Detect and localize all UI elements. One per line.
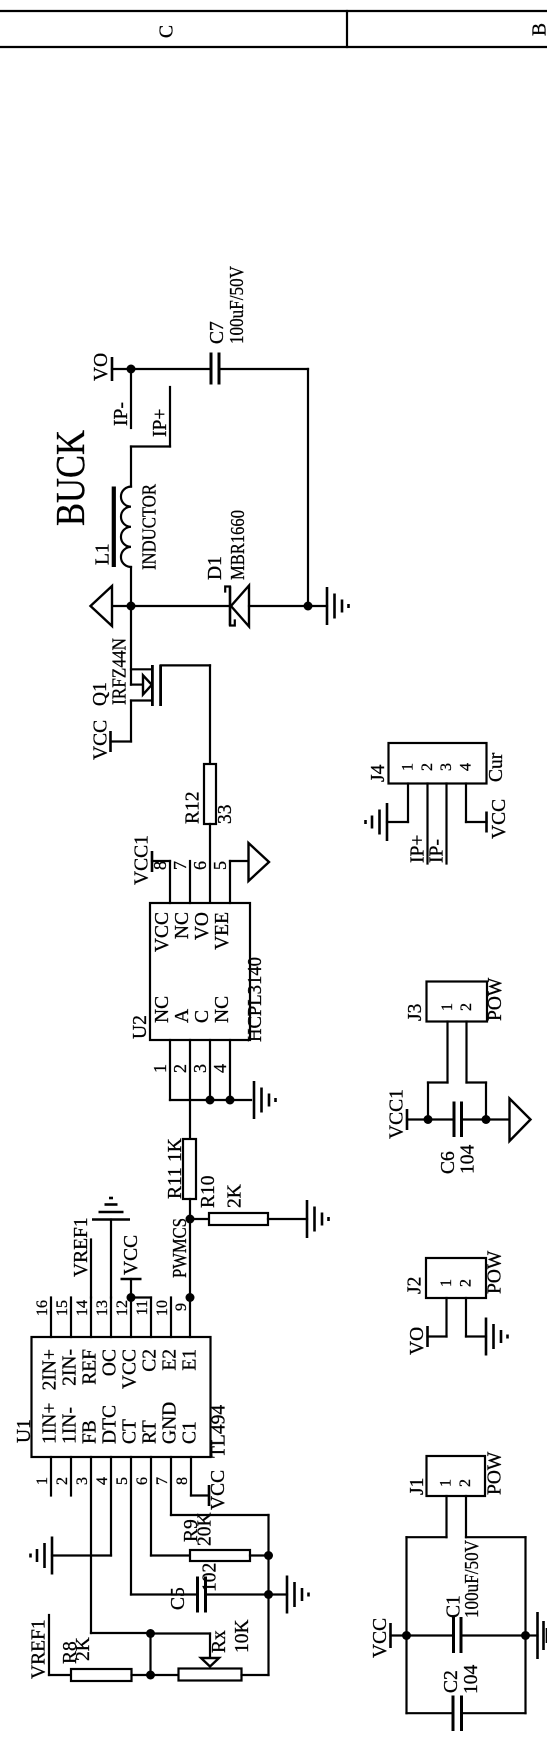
wire: REF to VREF1 <box>90 1240 92 1298</box>
open triangle arrow at J3 <box>510 1099 531 1142</box>
U2 pin 4 line <box>229 1040 231 1100</box>
svg-text:5: 5 <box>210 861 230 870</box>
svg-text:1: 1 <box>34 1477 51 1485</box>
U1 pin name 2IN- <box>60 1349 81 1386</box>
svg-text:4: 4 <box>94 1477 111 1485</box>
label R10 <box>198 1175 219 1208</box>
transistor Q1 gate bar <box>159 665 162 706</box>
svg-text:POW: POW <box>485 977 506 1021</box>
junction dot J3 return <box>482 1115 491 1124</box>
potentiometer Rx wiper arrow <box>201 1658 219 1667</box>
svg-text:2: 2 <box>419 763 436 771</box>
net label VREF1 at divider <box>29 1619 50 1679</box>
wire: C5 to gnd bus <box>207 1593 269 1595</box>
svg-text:NC: NC <box>172 912 193 939</box>
resistor R9 <box>190 1550 250 1561</box>
svg-text:VCC: VCC <box>208 1470 229 1510</box>
svg-text:1K: 1K <box>165 1138 186 1162</box>
junction dot R9/bus <box>264 1551 273 1560</box>
svg-text:J4: J4 <box>368 764 389 782</box>
wire: GND pin corner down to bus <box>171 1514 269 1516</box>
svg-text:C2: C2 <box>140 1349 161 1372</box>
label J3 <box>405 1004 426 1021</box>
J4 pin 4 <box>458 763 475 822</box>
wire: U2 ground tie line <box>170 1099 251 1101</box>
svg-text:3: 3 <box>74 1477 91 1485</box>
capacitor C7 plates <box>211 353 219 385</box>
power label VCC at pin12 <box>121 1235 142 1275</box>
value MBR1660 <box>228 510 249 580</box>
value 2K <box>225 1184 246 1208</box>
U2 pin 1 number <box>150 1064 170 1073</box>
J4 pin 1 <box>400 763 417 822</box>
wire: IP- stub <box>130 369 132 428</box>
wire: DTC corner up to ground <box>52 1554 111 1556</box>
svg-text:104: 104 <box>461 1665 482 1695</box>
U1 pin name 1IN- <box>60 1407 81 1444</box>
U2 pin 7 number <box>170 861 190 870</box>
svg-text:VCC: VCC <box>489 799 510 839</box>
svg-text:100uF/50V: 100uF/50V <box>462 1540 483 1618</box>
U1 pin 2 line <box>54 1457 71 1496</box>
J2 pin 2 <box>458 1279 475 1337</box>
wire: C1 column upper <box>407 1634 453 1636</box>
wire: C2 leg lower <box>463 1712 526 1714</box>
svg-text:GND: GND <box>160 1402 181 1444</box>
svg-text:2: 2 <box>457 1479 474 1487</box>
U1 pin name E1 <box>180 1349 201 1371</box>
frame border mid line <box>0 10 547 12</box>
wire: FB corner down to dot A <box>91 1632 151 1634</box>
J2 pin 1 <box>438 1279 455 1337</box>
U1 pin 6 line RT <box>134 1457 151 1556</box>
value 104 at C2 <box>461 1665 482 1695</box>
frame zone divider tick <box>346 11 348 47</box>
U2 pin 6 number <box>190 861 210 870</box>
ground at J2 <box>486 1318 508 1356</box>
label POW at J3 <box>485 977 506 1021</box>
ground at rail <box>308 587 349 625</box>
VCC flag stub at J1 <box>391 1634 407 1636</box>
wire: IP+ corner down <box>131 445 170 447</box>
value 102 <box>200 1563 221 1592</box>
U2 pin 3 line <box>209 1040 211 1100</box>
net label VCC1 <box>132 835 153 885</box>
node A arrow stub <box>112 605 131 607</box>
node A open triangle arrow <box>91 586 113 626</box>
label R8 <box>60 1641 81 1664</box>
wire: VCC rail <box>405 1537 407 1713</box>
svg-text:VO: VO <box>407 1327 428 1355</box>
U1 pin 3 line FB <box>74 1457 91 1633</box>
svg-text:1: 1 <box>438 1479 455 1487</box>
svg-text:R11: R11 <box>165 1167 186 1199</box>
wire: J1 pin2 corner down to gnd rail <box>466 1536 526 1538</box>
U1 pin name DTC <box>100 1405 121 1444</box>
svg-text:10: 10 <box>154 1300 171 1316</box>
U1 pin 10 line <box>154 1298 171 1338</box>
label Q1 <box>90 682 111 706</box>
ground up at DTC <box>31 1537 53 1575</box>
svg-text:20K: 20K <box>195 1512 216 1546</box>
svg-text:104: 104 <box>458 1145 479 1175</box>
VCC flag bar at pin8 <box>208 1485 211 1506</box>
connector J2 body <box>426 1258 486 1298</box>
svg-text:VCC: VCC <box>120 1349 141 1389</box>
wire: R12 to U2 pin6 <box>209 824 211 903</box>
svg-text:C: C <box>192 1010 213 1023</box>
svg-text:R12: R12 <box>183 791 204 824</box>
svg-text:E2: E2 <box>160 1349 181 1371</box>
wire: PWMCS net <box>189 1219 191 1298</box>
svg-text:2: 2 <box>458 1003 475 1011</box>
transistor Q1 body stub <box>131 683 143 685</box>
svg-text:VO: VO <box>91 353 112 381</box>
junction dot J3 VCC1 <box>424 1115 433 1124</box>
power label VCC at Q1 <box>91 720 112 760</box>
capacitor C6 plates <box>454 1102 462 1138</box>
U2 pin 2 number <box>170 1064 190 1073</box>
wire: R8 to Rx <box>132 1674 179 1676</box>
svg-text:VCC: VCC <box>370 1618 391 1658</box>
wire: Q1 source to switch node <box>130 606 132 685</box>
svg-text:3: 3 <box>438 763 455 771</box>
label POW at J1 <box>485 1451 506 1495</box>
transistor Q1 drain stub <box>131 699 152 701</box>
wire: gnd rail <box>524 1537 526 1713</box>
U2 pin 3 number <box>190 1064 210 1073</box>
label J2 <box>405 1277 426 1294</box>
label POW at J2 <box>485 1250 506 1294</box>
wire: RT net from pin6... dot A riser <box>151 1632 211 1634</box>
wire: CT corner down to C5 <box>131 1593 196 1595</box>
op-amp U1 TL494 body <box>32 1337 211 1457</box>
transistor Q1 body arrow <box>143 675 152 694</box>
svg-text:C5: C5 <box>168 1587 189 1610</box>
frame border inner line <box>0 46 547 48</box>
VCC flag stub at pin12 <box>130 1279 132 1298</box>
svg-text:C7: C7 <box>207 321 228 344</box>
value 10K <box>232 1619 253 1653</box>
svg-text:1: 1 <box>439 1003 456 1011</box>
wire: Rx to gnd bus <box>242 1674 269 1676</box>
label C1 <box>444 1595 465 1618</box>
net label IP- <box>111 402 132 426</box>
U1 pin name C1 <box>180 1421 201 1444</box>
svg-text:2K: 2K <box>73 1637 94 1661</box>
value 100uF/50V <box>227 266 248 344</box>
svg-text:VCC1: VCC1 <box>132 835 153 885</box>
label L1 <box>93 543 114 565</box>
wire: D1 anode to rail <box>249 605 308 607</box>
svg-text:2: 2 <box>458 1279 475 1287</box>
svg-text:VCC1: VCC1 <box>387 1089 408 1139</box>
net label IP+ at J4 <box>408 835 429 863</box>
U1 pin name FB <box>80 1420 101 1444</box>
wire: inductor to IP+ corner <box>130 447 132 487</box>
U2 pin 1 line <box>169 1040 171 1100</box>
svg-text:5: 5 <box>114 1477 131 1485</box>
wire: J1 pin1 corner up to VCC rail <box>407 1536 447 1538</box>
net label IP+ <box>150 409 171 437</box>
svg-text:15: 15 <box>54 1300 71 1316</box>
svg-text:1IN-: 1IN- <box>60 1407 81 1444</box>
label Rx <box>209 1630 230 1653</box>
label J4 <box>368 764 389 782</box>
net label IP- at J4 <box>427 839 448 863</box>
net label VCC1 at J3 <box>387 1089 408 1139</box>
VCC flag bar at J4 <box>485 812 488 833</box>
diode D1 cathode bar with schottky hooks <box>225 587 235 626</box>
U2 pin 4 number <box>210 1064 230 1073</box>
wire: Q1 drain to VCC corner <box>130 701 132 742</box>
net label PWMCS <box>170 1218 191 1278</box>
U2 pin name A <box>172 1009 193 1023</box>
value 2K <box>73 1637 94 1661</box>
wire: switch node down to D1 <box>131 605 230 607</box>
wire: C1 column lower <box>463 1634 526 1636</box>
svg-text:MBR1660: MBR1660 <box>228 510 249 580</box>
wire: IP+ stub <box>169 387 171 447</box>
wire: OC to ground <box>110 1220 112 1298</box>
U2 pin name NC left <box>152 996 173 1023</box>
label J1 <box>407 1478 428 1495</box>
svg-text:J1: J1 <box>407 1478 428 1495</box>
svg-text:IP-: IP- <box>111 402 132 426</box>
power label VCC at J4 <box>489 799 510 839</box>
resistor R12 <box>204 764 216 824</box>
svg-text:OC: OC <box>100 1349 121 1376</box>
svg-text:2K: 2K <box>225 1184 246 1208</box>
svg-text:J3: J3 <box>405 1004 426 1021</box>
wire: J3 pin1 corner <box>428 1083 448 1120</box>
svg-text:PWMCS: PWMCS <box>170 1218 191 1278</box>
U1 pin name VCC <box>120 1349 141 1389</box>
svg-text:9: 9 <box>173 1303 190 1311</box>
ground at U2 <box>254 1081 276 1119</box>
U2 pin 7 line <box>189 861 191 903</box>
junction dot gnd rail <box>521 1631 530 1640</box>
svg-text:NC: NC <box>152 996 173 1023</box>
junction dot B <box>146 1671 155 1680</box>
svg-text:U2: U2 <box>130 1015 151 1039</box>
U1 pin 13 line OC <box>94 1298 111 1338</box>
open triangle arrow at U2 pin5 <box>249 843 270 881</box>
J3 pin 2 <box>458 1003 475 1083</box>
VCC flag stub at Q1 <box>111 740 132 742</box>
svg-text:C2: C2 <box>441 1670 462 1693</box>
wire: J3 pin2 corner <box>467 1083 487 1120</box>
svg-text:100uF/50V: 100uF/50V <box>227 266 248 344</box>
J4 pin 2 IP+ <box>419 763 436 864</box>
resistor R8 <box>71 1669 132 1681</box>
svg-text:L1: L1 <box>93 543 114 565</box>
U2 pin 8 number <box>150 861 170 870</box>
capacitor C2 plates <box>453 1696 462 1732</box>
svg-text:10K: 10K <box>232 1619 253 1653</box>
wire: R10 to ground <box>268 1218 307 1220</box>
transistor Q1 channel bar <box>151 665 154 706</box>
svg-text:POW: POW <box>485 1451 506 1495</box>
ground right at OC <box>92 1198 130 1220</box>
U2 pin name VO <box>192 912 213 940</box>
svg-text:1IN+: 1IN+ <box>40 1403 61 1444</box>
U2 pin name VEE <box>212 912 233 950</box>
value 1K <box>165 1138 186 1162</box>
wire: J2 pin1 corner up <box>428 1335 447 1337</box>
U1 pin 4 line DTC <box>94 1457 111 1556</box>
J4 pin 3 IP- <box>438 763 455 864</box>
junction dot U2 pin4 <box>226 1096 235 1105</box>
svg-text:16: 16 <box>34 1300 51 1316</box>
ground at R10 <box>307 1200 329 1238</box>
J1 pin 1 <box>438 1479 455 1537</box>
VCC flag bar at Q1 <box>109 731 112 752</box>
frame zone letter B <box>530 23 547 36</box>
ground at gnd rail (clipped) <box>526 1612 547 1659</box>
ground up at J4 <box>366 803 388 841</box>
U1 pin name OC <box>100 1349 121 1376</box>
svg-text:VEE: VEE <box>212 912 233 950</box>
svg-text:VREF1: VREF1 <box>29 1619 50 1679</box>
J3 pin 1 <box>439 1003 456 1083</box>
svg-text:2: 2 <box>54 1477 71 1485</box>
value HCPL3140 <box>245 957 266 1042</box>
VCC1 flag corner at U2 pin8 <box>152 860 170 862</box>
connector J3 body <box>427 982 488 1022</box>
svg-text:R10: R10 <box>198 1175 219 1208</box>
svg-text:VCC: VCC <box>121 1235 142 1275</box>
svg-text:102: 102 <box>200 1563 221 1592</box>
wire: ground return rail <box>307 369 309 606</box>
U1 pin 1 line <box>34 1457 51 1496</box>
value 33 <box>215 805 236 825</box>
svg-text:DTC: DTC <box>100 1405 121 1444</box>
U1 pin 7 line GND <box>154 1457 171 1515</box>
net label VO <box>91 353 112 381</box>
U1 pin 9 line <box>173 1298 190 1338</box>
label C5 <box>168 1587 189 1610</box>
svg-text:D1: D1 <box>205 556 226 580</box>
wire: Q1 gate lead down <box>161 664 210 666</box>
VCC1 flag bar <box>151 851 154 872</box>
label C6 <box>438 1151 459 1174</box>
svg-text:4: 4 <box>210 1064 230 1073</box>
svg-text:IP+: IP+ <box>408 835 429 863</box>
U1 pin name 2IN+ <box>40 1349 61 1390</box>
wire: VREF1 stub <box>48 1615 50 1675</box>
U2 pin 5 number <box>210 861 230 870</box>
rail junction dot <box>304 602 313 611</box>
wire: C6 rail lower <box>463 1118 510 1120</box>
wire: VO node down to C7 <box>131 368 209 370</box>
inductor L1 coil <box>121 487 131 567</box>
VCC flag bar at J1 <box>389 1623 392 1648</box>
svg-text:REF: REF <box>80 1349 101 1385</box>
wire: J4 pin1 corner up <box>387 821 408 823</box>
svg-text:8: 8 <box>174 1477 191 1485</box>
svg-text:3: 3 <box>190 1064 210 1073</box>
svg-text:6: 6 <box>134 1477 151 1485</box>
svg-text:FB: FB <box>80 1420 101 1444</box>
wire: U2 pin5 corner down <box>230 860 249 862</box>
U1 pin name GND <box>160 1402 181 1444</box>
capacitor C5 plates <box>198 1577 206 1613</box>
wire: J2 pin2 corner down <box>466 1335 486 1337</box>
svg-text:IP+: IP+ <box>150 409 171 437</box>
U1 pin 15 line <box>54 1298 71 1338</box>
node A (switch node) junction dot <box>127 602 136 611</box>
VCC1 flag bar at J3 <box>406 1109 409 1130</box>
svg-text:33: 33 <box>215 805 236 825</box>
svg-text:C1: C1 <box>180 1421 201 1444</box>
label INDUCTOR <box>140 484 161 570</box>
junction dot U1 pin12 <box>127 1293 136 1302</box>
inductor L1 core bar <box>112 487 116 568</box>
svg-text:2IN+: 2IN+ <box>40 1349 61 1390</box>
U2 pin name C <box>192 1010 213 1023</box>
wire: C6 rail upper <box>407 1118 453 1120</box>
svg-text:HCPL3140: HCPL3140 <box>245 957 266 1042</box>
power label VCC at J1 <box>370 1618 391 1658</box>
svg-text:POW: POW <box>485 1250 506 1294</box>
wire: R11 to PWMCS dot <box>189 1199 191 1219</box>
net label VREF1 <box>71 1217 92 1277</box>
label Cur <box>486 752 507 782</box>
svg-text:VCC: VCC <box>152 912 173 952</box>
wire: ground bus <box>267 1515 269 1675</box>
label U2 <box>130 1015 151 1039</box>
svg-text:C6: C6 <box>438 1151 459 1174</box>
transistor Q1 source stub <box>131 668 152 670</box>
wire: C7 to ground rail <box>221 368 308 370</box>
U1 pin name C2 <box>140 1349 161 1372</box>
U2 pin name NC <box>172 912 193 939</box>
potentiometer Rx body <box>179 1669 242 1681</box>
value 100uF/50V at C1 <box>462 1540 483 1618</box>
svg-text:B: B <box>530 23 547 36</box>
label R12 <box>183 791 204 824</box>
svg-text:7: 7 <box>170 861 190 870</box>
wire: J4 pin4 corner down <box>466 821 487 823</box>
U2 pin name VCC <box>152 912 173 952</box>
frame zone letter C <box>157 25 178 38</box>
junction dot U2 pin3 <box>206 1096 215 1105</box>
wire: gate to R12 <box>209 665 211 764</box>
U2 pin 2 line to R11 <box>189 1040 191 1139</box>
label U1 <box>14 1419 35 1443</box>
U1 pin name E2 <box>160 1349 181 1371</box>
svg-text:1: 1 <box>438 1279 455 1287</box>
value 104 at C6 <box>458 1145 479 1175</box>
svg-text:VREF1: VREF1 <box>71 1217 92 1277</box>
svg-text:11: 11 <box>134 1300 151 1315</box>
svg-text:BUCK: BUCK <box>47 430 93 526</box>
svg-text:INDUCTOR: INDUCTOR <box>140 484 161 570</box>
VCC flag bar at pin12 <box>121 1278 142 1281</box>
svg-text:E1: E1 <box>180 1349 201 1371</box>
svg-text:7: 7 <box>154 1477 171 1485</box>
node VO junction dot <box>127 365 136 374</box>
resistor R11 <box>183 1139 196 1199</box>
wire: VREF1 corner down to R8 <box>49 1674 71 1676</box>
svg-text:4: 4 <box>458 763 475 771</box>
svg-text:A: A <box>172 1009 193 1023</box>
svg-text:VO: VO <box>192 912 213 940</box>
svg-text:6: 6 <box>190 861 210 870</box>
VO power flag bar <box>111 357 114 381</box>
title BUCK <box>47 430 93 526</box>
